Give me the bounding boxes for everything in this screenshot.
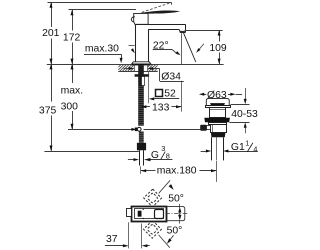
svg-text:1: 1 (245, 139, 249, 148)
svg-text:G1: G1 (231, 142, 245, 153)
svg-text:50°: 50° (168, 193, 184, 204)
svg-text:max.: max. (61, 86, 84, 97)
svg-text:Ø34: Ø34 (161, 72, 181, 83)
svg-text:50°: 50° (167, 226, 183, 237)
svg-text:172: 172 (63, 33, 81, 44)
svg-text:109: 109 (209, 43, 227, 54)
svg-text:8: 8 (166, 152, 170, 161)
svg-text:300: 300 (61, 101, 79, 112)
svg-text:40-53: 40-53 (231, 109, 258, 120)
svg-text:max.180: max.180 (157, 165, 197, 176)
svg-text:37: 37 (106, 234, 118, 245)
svg-text:max.30: max.30 (85, 43, 119, 54)
svg-text:G: G (151, 150, 159, 161)
svg-text:22°: 22° (153, 41, 169, 52)
svg-text:201: 201 (42, 28, 60, 39)
svg-text:375: 375 (39, 106, 57, 117)
svg-text:4: 4 (253, 144, 257, 153)
svg-text:133: 133 (152, 102, 170, 113)
